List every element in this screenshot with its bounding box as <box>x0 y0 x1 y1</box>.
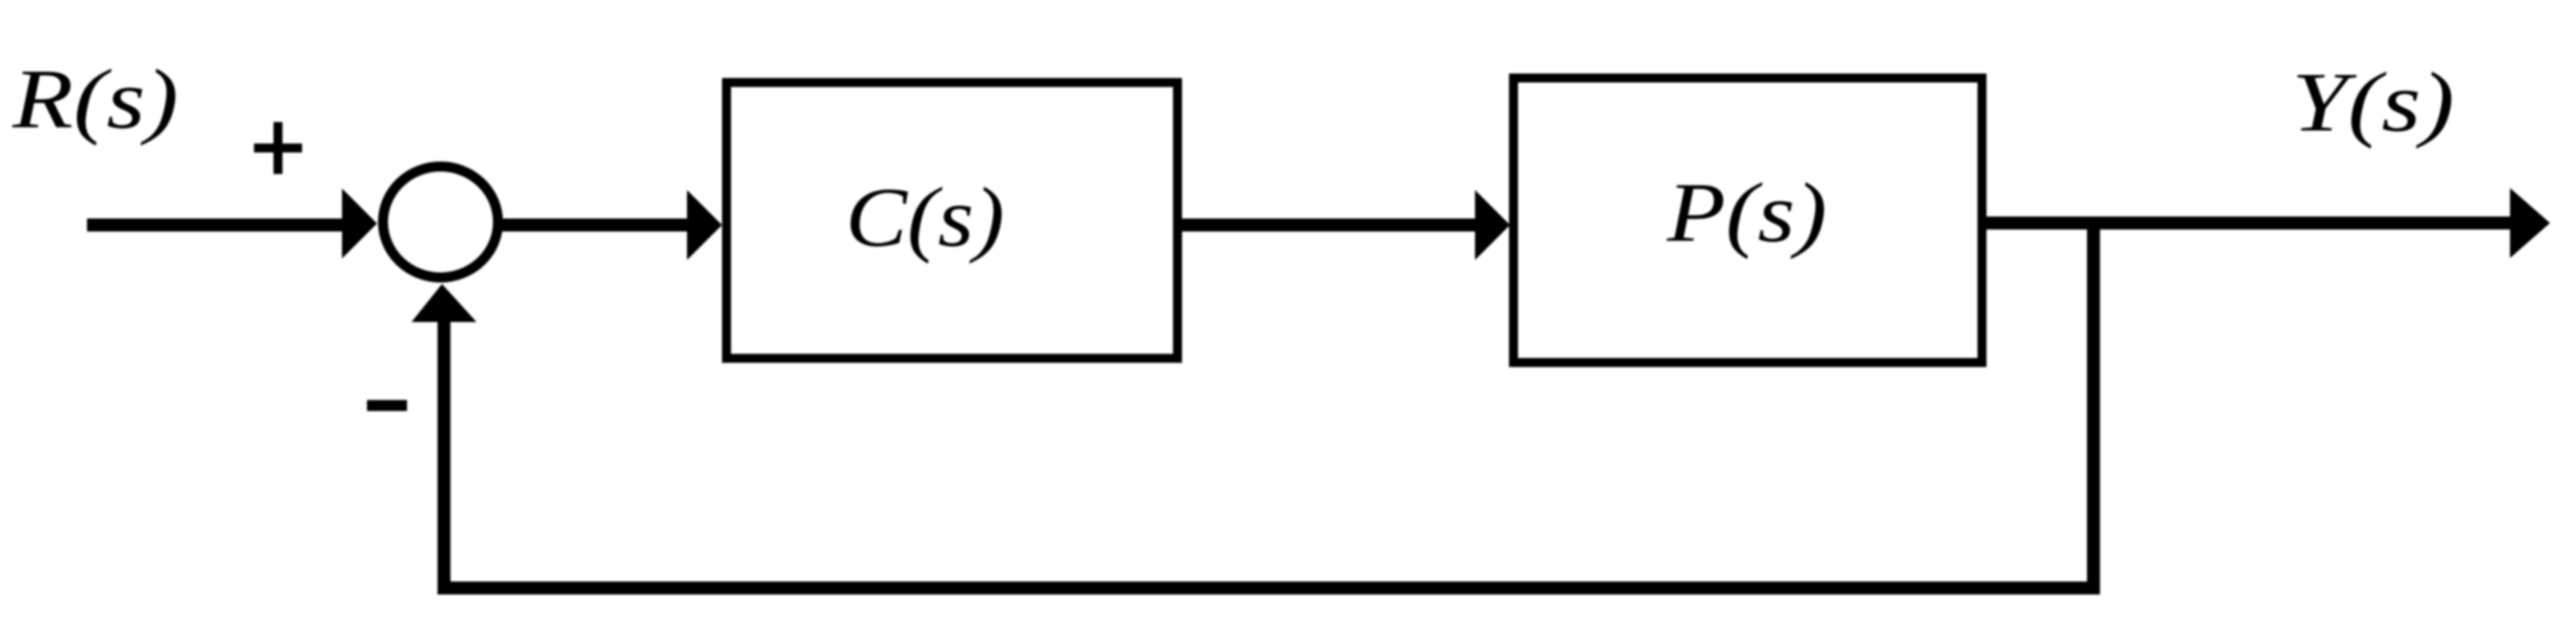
arrowhead into summing junction <box>342 189 377 259</box>
wire feedback bottom run <box>438 582 2100 595</box>
wire input to summing junction <box>87 219 344 232</box>
plus sign at summing junction <box>254 122 302 174</box>
svg-text:C(s): C(s) <box>846 171 1005 265</box>
svg-text:R(s): R(s) <box>11 53 178 147</box>
arrowhead into C(s) <box>687 190 722 260</box>
output arrowhead Y(s) <box>2510 188 2550 258</box>
wire feedback drop from output <box>2087 217 2100 588</box>
block C(s) <box>727 83 1178 359</box>
wire feedback riser to summing junction <box>438 320 451 595</box>
arrowhead into summing junction bottom <box>412 284 477 322</box>
block P(s) <box>1514 78 1983 363</box>
wire summing junction to C(s) <box>501 219 688 232</box>
wire C(s) to P(s) <box>1182 219 1477 232</box>
arrowhead into P(s) <box>1475 190 1510 260</box>
svg-text:Y(s): Y(s) <box>2292 56 2455 150</box>
minus sign feedback <box>367 400 407 411</box>
summing junction circle <box>383 167 498 278</box>
wire P(s) to output <box>1986 217 2513 230</box>
svg-text:P(s): P(s) <box>1666 166 1827 260</box>
